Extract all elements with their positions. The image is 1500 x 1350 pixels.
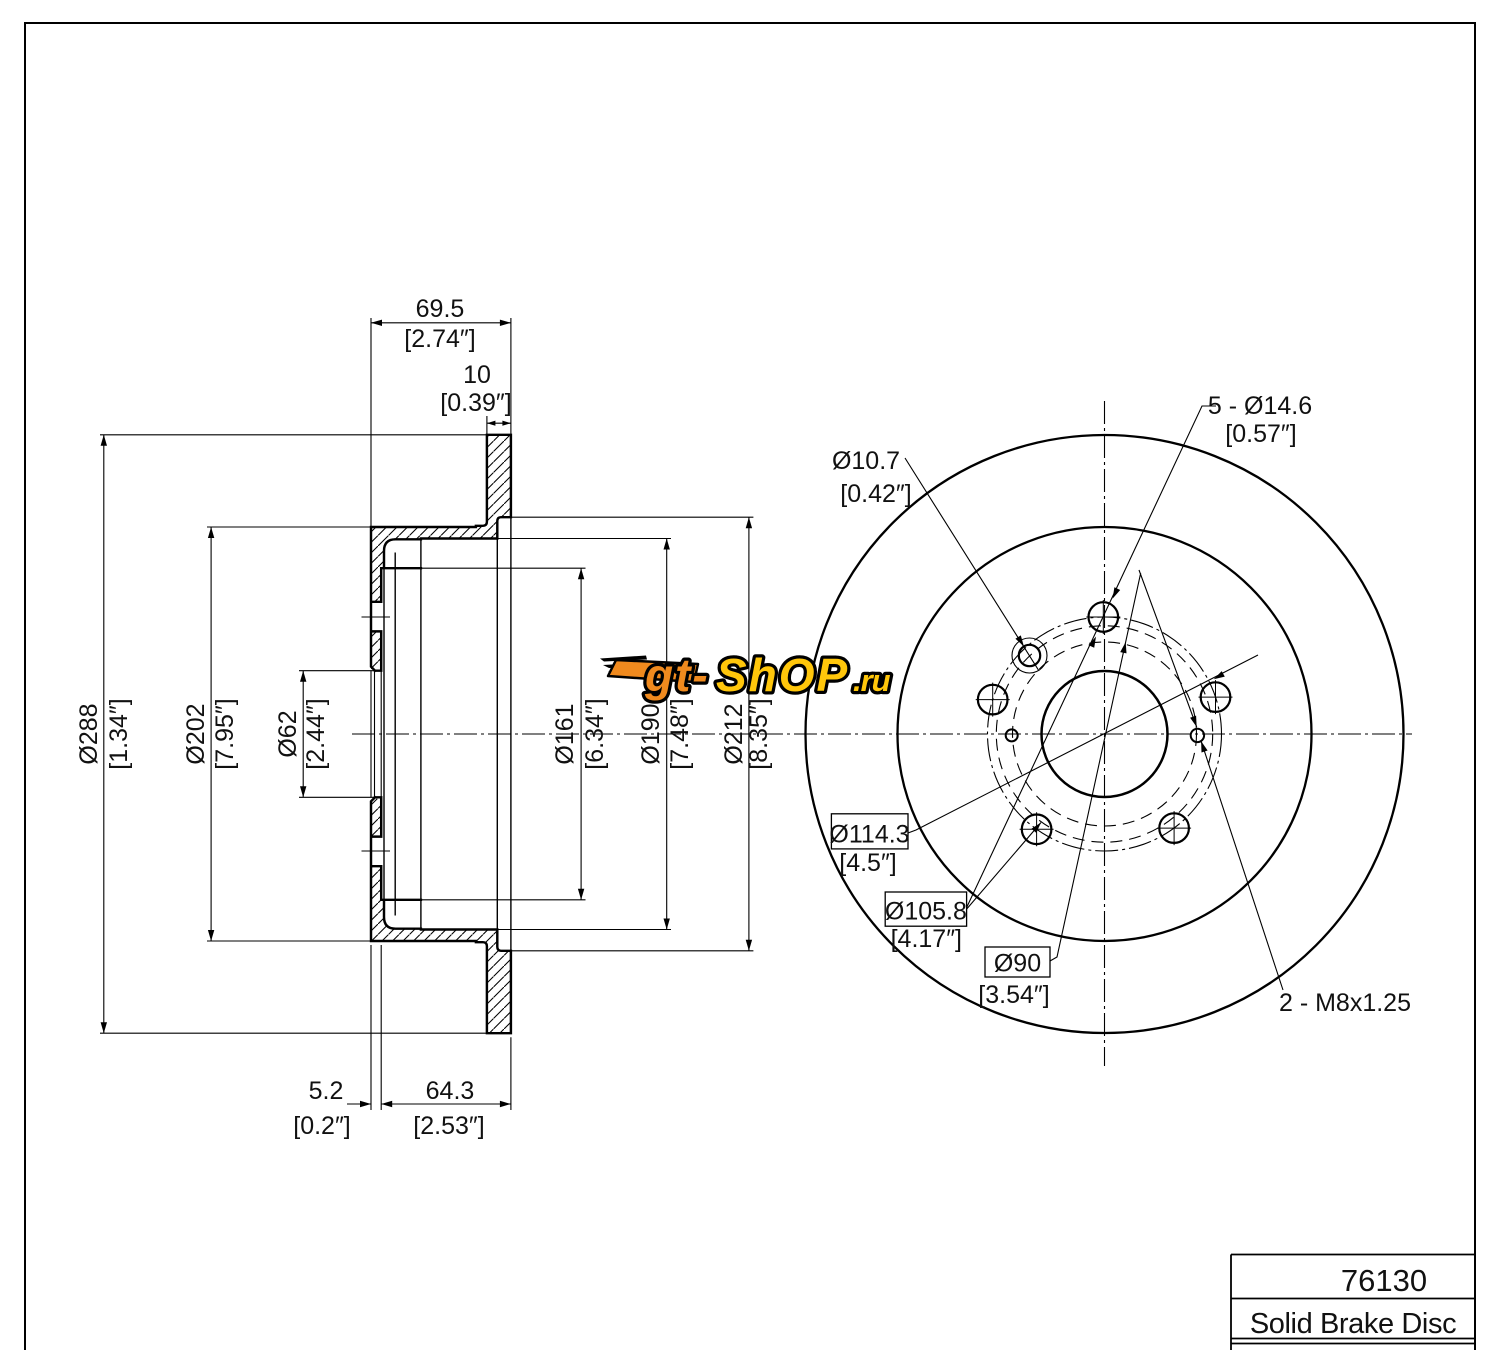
svg-text:[2.44″]: [2.44″] <box>302 698 330 769</box>
svg-text:[0.2″]: [0.2″] <box>293 1112 351 1140</box>
svg-text:Ø288: Ø288 <box>75 703 103 764</box>
svg-text:.ru: .ru <box>853 663 891 698</box>
svg-text:[6.34″]: [6.34″] <box>581 698 609 769</box>
svg-text:Ø90: Ø90 <box>994 950 1041 978</box>
svg-text:Solid Brake Disc: Solid Brake Disc <box>1250 1308 1456 1340</box>
svg-text:2 - M8x1.25: 2 - M8x1.25 <box>1279 989 1411 1017</box>
svg-text:[8.35″]: [8.35″] <box>745 698 773 769</box>
svg-text:[4.5″]: [4.5″] <box>839 849 897 877</box>
svg-text:[1.34″]: [1.34″] <box>105 698 133 769</box>
svg-text:Ø212: Ø212 <box>720 703 748 764</box>
svg-text:Ø202: Ø202 <box>182 703 210 764</box>
svg-text:69.5: 69.5 <box>416 295 465 323</box>
svg-text:Ø62: Ø62 <box>274 710 302 757</box>
svg-text:Ø105.8: Ø105.8 <box>885 898 967 926</box>
svg-text:[0.39″]: [0.39″] <box>440 389 511 417</box>
svg-text:[0.57″]: [0.57″] <box>1225 420 1296 448</box>
svg-text:Ø114.3: Ø114.3 <box>829 821 909 849</box>
svg-text:Ø161: Ø161 <box>551 703 579 764</box>
svg-text:64.3: 64.3 <box>426 1077 475 1105</box>
svg-text:[7.48″]: [7.48″] <box>666 698 694 769</box>
svg-text:[3.54″]: [3.54″] <box>978 981 1049 1009</box>
svg-text:Ø10.7: Ø10.7 <box>832 447 900 475</box>
svg-text:[4.17″]: [4.17″] <box>891 925 962 953</box>
svg-text:[2.53″]: [2.53″] <box>413 1112 484 1140</box>
svg-text:76130: 76130 <box>1341 1263 1427 1298</box>
svg-text:ShOP: ShOP <box>716 649 849 701</box>
svg-text:gt-: gt- <box>644 649 710 701</box>
svg-text:[7.95″]: [7.95″] <box>211 698 239 769</box>
svg-text:Ø190: Ø190 <box>637 703 665 764</box>
svg-text:5 - Ø14.6: 5 - Ø14.6 <box>1208 392 1312 420</box>
svg-text:10: 10 <box>463 361 491 389</box>
svg-text:[0.42″]: [0.42″] <box>840 480 911 508</box>
svg-text:[2.74″]: [2.74″] <box>404 325 475 353</box>
svg-text:5.2: 5.2 <box>309 1077 344 1105</box>
